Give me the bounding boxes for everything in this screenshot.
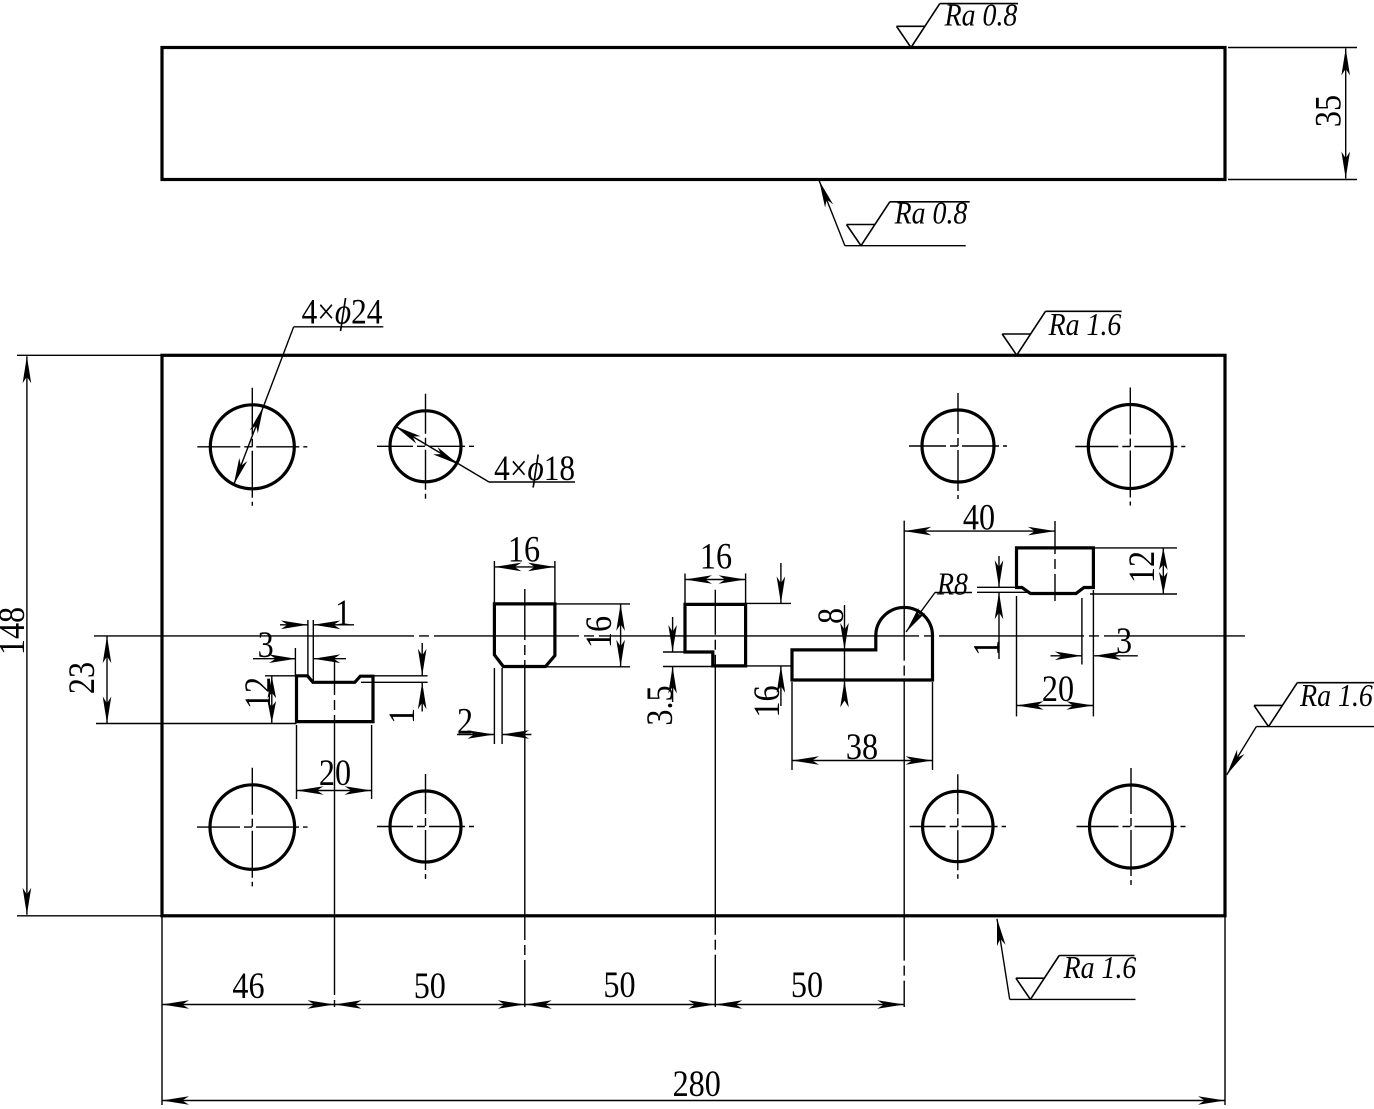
svg-text:50: 50 <box>414 966 446 1007</box>
svg-text:Ra 1.6: Ra 1.6 <box>1063 950 1137 985</box>
svg-text:20: 20 <box>319 753 351 794</box>
svg-text:1: 1 <box>966 640 1007 656</box>
svg-text:R8: R8 <box>936 567 968 602</box>
svg-text:12: 12 <box>238 677 279 709</box>
svg-text:1: 1 <box>382 708 423 724</box>
svg-text:16: 16 <box>579 616 620 648</box>
svg-text:46: 46 <box>232 966 264 1007</box>
svg-text:Ra 0.8: Ra 0.8 <box>894 196 968 231</box>
svg-text:16: 16 <box>508 529 540 570</box>
svg-text:38: 38 <box>846 727 878 768</box>
svg-text:35: 35 <box>1308 95 1349 127</box>
svg-text:16: 16 <box>747 685 788 717</box>
svg-text:Ra 1.6: Ra 1.6 <box>1299 678 1373 713</box>
svg-text:Ra 1.6: Ra 1.6 <box>1048 307 1122 342</box>
svg-text:12: 12 <box>1122 551 1163 583</box>
svg-text:50: 50 <box>603 965 635 1006</box>
svg-text:50: 50 <box>791 965 823 1006</box>
svg-text:3: 3 <box>1116 621 1132 662</box>
svg-text:23: 23 <box>62 662 103 694</box>
svg-text:2: 2 <box>457 701 473 742</box>
svg-text:20: 20 <box>1042 669 1074 710</box>
svg-text:4×ϕ18: 4×ϕ18 <box>494 449 575 488</box>
svg-text:40: 40 <box>963 497 995 538</box>
svg-text:16: 16 <box>700 536 732 577</box>
svg-text:8: 8 <box>811 608 852 624</box>
svg-text:3.5: 3.5 <box>640 685 681 725</box>
svg-text:1: 1 <box>335 593 351 634</box>
svg-text:Ra 0.8: Ra 0.8 <box>944 0 1018 33</box>
svg-text:4×ϕ24: 4×ϕ24 <box>302 292 383 331</box>
svg-text:3: 3 <box>258 625 274 666</box>
svg-text:280: 280 <box>673 1064 721 1105</box>
svg-text:148: 148 <box>0 607 32 655</box>
